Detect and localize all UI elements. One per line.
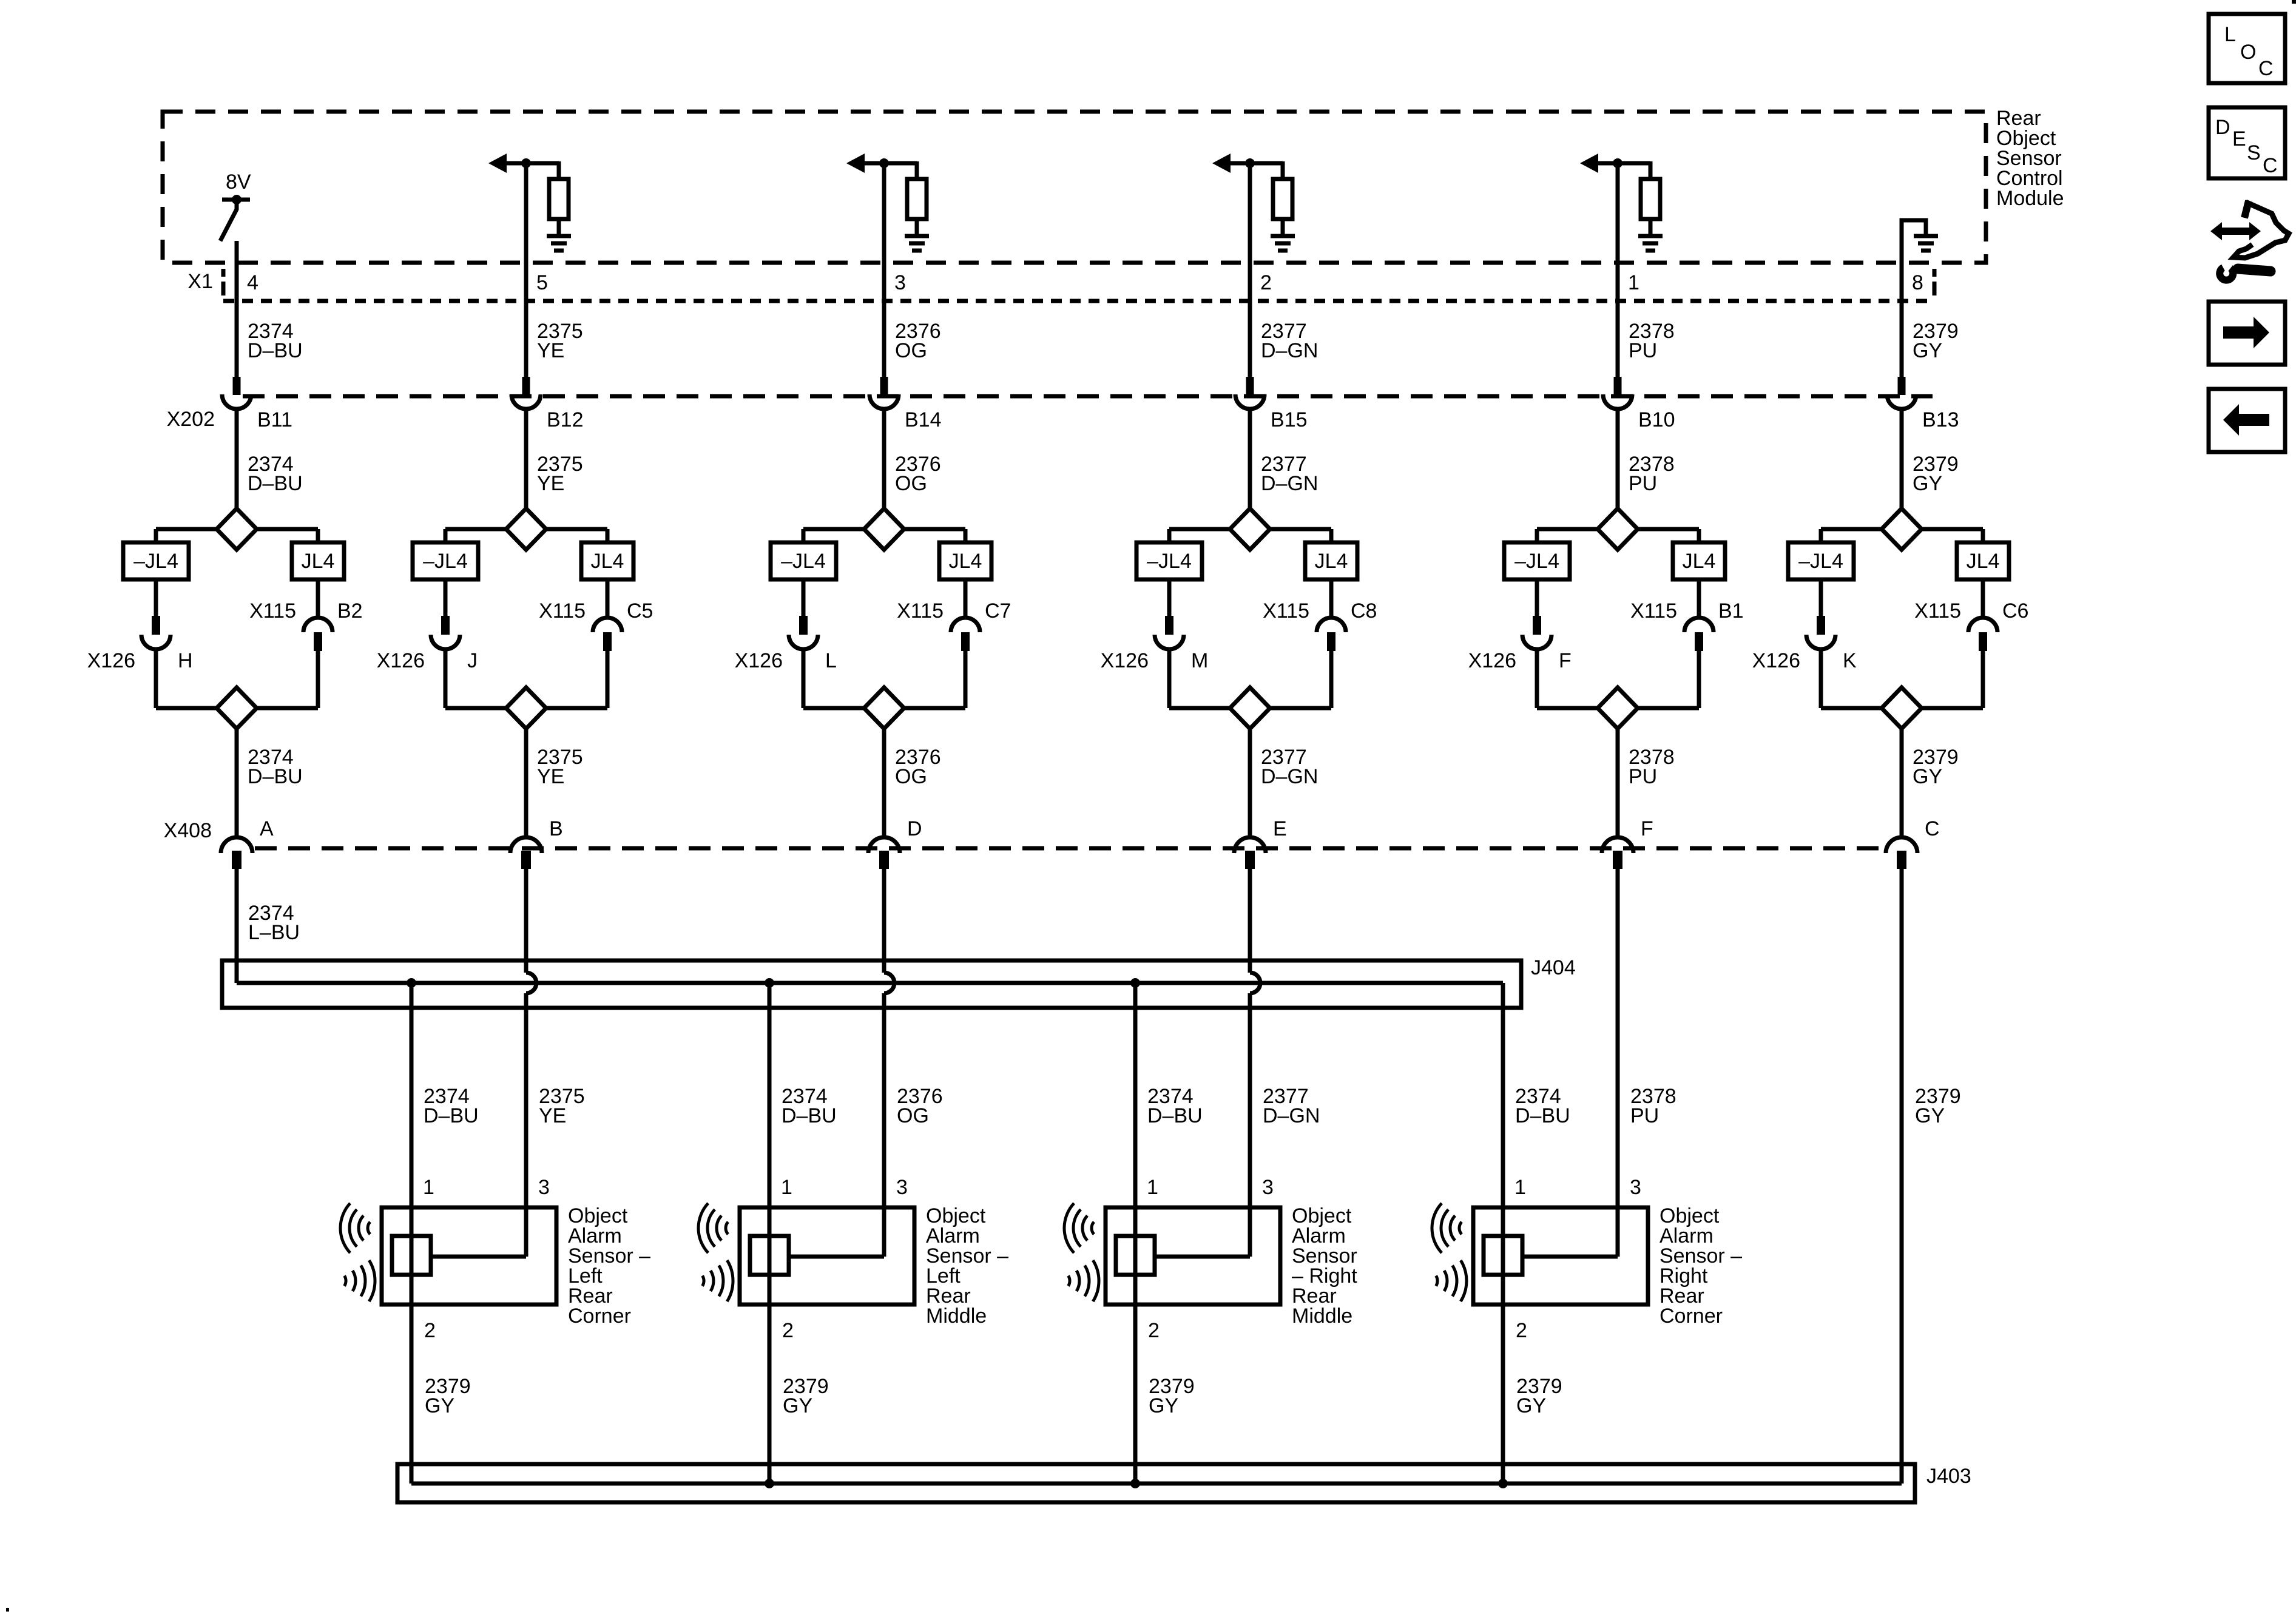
svg-text:B10: B10 [1638,408,1675,431]
svg-text:D–GN: D–GN [1261,339,1318,362]
svg-text:F: F [1559,649,1572,672]
svg-text:–JL4: –JL4 [1798,550,1843,573]
svg-text:PU: PU [1629,472,1657,495]
svg-text:B11: B11 [257,408,292,431]
svg-text:Middle: Middle [926,1305,987,1328]
svg-text:3: 3 [1262,1176,1274,1199]
svg-text:X126: X126 [377,649,425,672]
svg-text:X126: X126 [1101,649,1149,672]
svg-text:L: L [2224,23,2236,46]
svg-text:X115: X115 [249,599,296,623]
svg-text:X126: X126 [1752,649,1800,672]
svg-text:YE: YE [537,472,564,495]
svg-text:JL4: JL4 [949,550,982,573]
svg-text:8: 8 [1912,271,1923,294]
svg-text:GY: GY [1149,1394,1178,1417]
svg-text:D–BU: D–BU [424,1104,479,1127]
svg-text:X115: X115 [897,599,944,623]
svg-text:PU: PU [1630,1104,1659,1127]
svg-text:B: B [549,817,563,840]
svg-text:X1: X1 [187,270,213,293]
svg-text:GY: GY [1915,1104,1945,1127]
svg-text:C7: C7 [985,599,1011,623]
svg-text:B15: B15 [1271,408,1308,431]
svg-text:J404: J404 [1531,956,1576,979]
svg-text:1: 1 [423,1176,434,1199]
svg-text:5: 5 [536,271,548,294]
svg-text:OG: OG [895,339,927,362]
svg-text:1: 1 [781,1176,792,1199]
svg-text:3: 3 [896,1176,908,1199]
svg-text:J403: J403 [1926,1465,1971,1488]
svg-text:D: D [907,817,922,840]
svg-text:K: K [1843,649,1857,672]
svg-text:8V: 8V [226,170,251,194]
svg-text:–JL4: –JL4 [423,550,468,573]
svg-text:OG: OG [895,765,927,788]
svg-text:YE: YE [539,1104,566,1127]
svg-text:JL4: JL4 [302,550,335,573]
svg-text:YE: YE [537,339,564,362]
svg-text:D: D [2215,116,2230,139]
svg-text:C: C [2258,57,2274,80]
svg-text:OG: OG [895,472,927,495]
svg-text:X115: X115 [539,599,586,623]
svg-text:Middle: Middle [1292,1305,1352,1328]
svg-text:YE: YE [537,765,564,788]
svg-text:4: 4 [247,271,258,294]
svg-text:1: 1 [1147,1176,1158,1199]
svg-text:C5: C5 [627,599,653,623]
svg-text:3: 3 [1630,1176,1641,1199]
svg-text:S: S [2247,141,2261,164]
svg-text:Corner: Corner [1660,1305,1723,1328]
svg-text:B2: B2 [337,599,363,623]
svg-text:D–BU: D–BU [1515,1104,1570,1127]
svg-text:1: 1 [1628,271,1639,294]
svg-text:GY: GY [1913,339,1942,362]
svg-text:X115: X115 [1630,599,1677,623]
svg-text:1: 1 [1514,1176,1526,1199]
svg-text:C: C [2263,154,2278,177]
svg-text:B12: B12 [547,408,584,431]
svg-text:D–GN: D–GN [1263,1104,1320,1127]
svg-text:2: 2 [1516,1319,1527,1342]
svg-text:PU: PU [1629,339,1657,362]
svg-text:GY: GY [1913,765,1942,788]
svg-text:O: O [2240,41,2256,64]
svg-text:JL4: JL4 [1315,550,1348,573]
svg-text:M: M [1191,649,1208,672]
svg-text:3: 3 [538,1176,550,1199]
svg-text:Module: Module [1996,187,2064,210]
svg-text:A: A [260,817,274,840]
svg-text:D–BU: D–BU [248,765,303,788]
svg-text:L: L [825,649,837,672]
svg-text:X408: X408 [164,819,212,842]
svg-text:JL4: JL4 [1683,550,1716,573]
svg-text:D–BU: D–BU [782,1104,837,1127]
svg-text:B1: B1 [1718,599,1744,623]
svg-text:3: 3 [894,271,906,294]
svg-text:C6: C6 [2002,599,2028,623]
svg-text:H: H [178,649,193,672]
svg-text:J: J [467,649,478,672]
svg-text:D–GN: D–GN [1261,765,1318,788]
svg-text:2: 2 [1260,271,1272,294]
svg-text:JL4: JL4 [591,550,624,573]
svg-text:–JL4: –JL4 [1147,550,1192,573]
svg-text:F: F [1641,817,1653,840]
svg-text:GY: GY [425,1394,454,1417]
svg-text:2: 2 [782,1319,794,1342]
svg-text:–JL4: –JL4 [781,550,826,573]
svg-text:X126: X126 [87,649,135,672]
svg-text:X115: X115 [1263,599,1309,623]
svg-text:X126: X126 [1468,649,1516,672]
svg-text:2: 2 [1148,1319,1160,1342]
svg-text:PU: PU [1629,765,1657,788]
svg-text:Corner: Corner [568,1305,631,1328]
svg-text:–JL4: –JL4 [1514,550,1559,573]
svg-text:GY: GY [1516,1394,1546,1417]
svg-text:L–BU: L–BU [248,921,300,944]
svg-text:D–BU: D–BU [1147,1104,1203,1127]
svg-text:X126: X126 [735,649,783,672]
svg-text:B13: B13 [1922,408,1959,431]
svg-text:E: E [1273,817,1287,840]
svg-text:2: 2 [424,1319,436,1342]
svg-text:GY: GY [783,1394,812,1417]
svg-text:C: C [1925,817,1940,840]
svg-text:D–BU: D–BU [248,339,303,362]
svg-text:GY: GY [1913,472,1942,495]
svg-text:X115: X115 [1914,599,1961,623]
svg-text:B14: B14 [905,408,942,431]
svg-text:–JL4: –JL4 [133,550,178,573]
svg-text:JL4: JL4 [1967,550,2000,573]
svg-text:C8: C8 [1351,599,1377,623]
svg-text:X202: X202 [167,408,215,431]
svg-text:D–BU: D–BU [248,472,303,495]
svg-text:OG: OG [897,1104,929,1127]
svg-text:D–GN: D–GN [1261,472,1318,495]
svg-text:E: E [2232,127,2246,150]
